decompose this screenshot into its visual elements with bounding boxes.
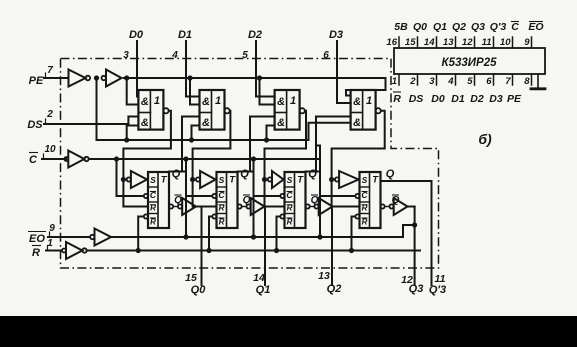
IC pin 2 bottom bbox=[417, 74, 419, 85]
svg-text:5: 5 bbox=[467, 76, 473, 87]
IC body K533IR25 bbox=[394, 48, 545, 74]
svg-text:15: 15 bbox=[185, 272, 197, 284]
wire PE branch stage1 bbox=[124, 75, 129, 80]
svg-text:D3: D3 bbox=[329, 29, 343, 41]
IC pin 4 bottom bbox=[455, 74, 457, 85]
svg-text:5: 5 bbox=[242, 50, 248, 61]
svg-text:&: & bbox=[277, 96, 285, 108]
svg-text:D3: D3 bbox=[489, 93, 503, 105]
wire DS bbox=[44, 123, 128, 125]
scan black band bbox=[0, 316, 577, 347]
wire PE bbox=[44, 77, 69, 79]
wire PE-not branch stage4 bbox=[309, 123, 351, 140]
svg-text:Q: Q bbox=[308, 168, 317, 180]
IC pin 3 bottom bbox=[436, 74, 438, 85]
wire Q1 feedback to stage3 bbox=[249, 117, 251, 172]
wire EO in bbox=[48, 236, 90, 238]
svg-text:1: 1 bbox=[392, 76, 397, 87]
overbar R bottom bbox=[393, 91, 401, 93]
svg-text:7: 7 bbox=[505, 76, 511, 87]
wire gate DD2 output bbox=[193, 111, 231, 207]
buffer S input T1 bbox=[121, 177, 126, 182]
svg-text:Q0: Q0 bbox=[413, 21, 427, 33]
inverter PE first bbox=[69, 70, 86, 87]
buffer EO bbox=[90, 235, 94, 239]
svg-text:D0: D0 bbox=[129, 29, 144, 41]
svg-text:1: 1 bbox=[154, 95, 160, 107]
svg-text:Q: Q bbox=[240, 168, 249, 180]
svg-text:D2: D2 bbox=[470, 93, 484, 105]
IC pin 14 top bbox=[436, 37, 438, 48]
flip-flop T4 (S C R R / T) bbox=[360, 172, 381, 228]
svg-text:15: 15 bbox=[405, 37, 416, 48]
svg-text:D0: D0 bbox=[431, 93, 445, 105]
svg-text:Q2: Q2 bbox=[452, 21, 466, 33]
svg-text:R: R bbox=[219, 218, 225, 227]
svg-text:3: 3 bbox=[429, 76, 435, 87]
wire Q2 to pin bbox=[331, 206, 334, 208]
wire Q1 to pin bbox=[264, 206, 267, 208]
svg-text:Q1: Q1 bbox=[256, 284, 271, 296]
svg-text:б): б) bbox=[478, 131, 492, 147]
IC pin 9 top bbox=[531, 37, 533, 48]
border dash-dot frame bbox=[61, 59, 439, 269]
svg-text:Q′3: Q′3 bbox=[490, 21, 507, 33]
wire Q2 down bbox=[319, 146, 321, 238]
svg-text:9: 9 bbox=[49, 223, 55, 234]
svg-text:10: 10 bbox=[500, 37, 511, 48]
svg-text:&: & bbox=[277, 117, 285, 129]
wire Q2 feedback jog bbox=[316, 146, 320, 172]
svg-text:10: 10 bbox=[44, 144, 56, 155]
svg-text:PE: PE bbox=[507, 93, 522, 105]
svg-text:13: 13 bbox=[443, 37, 454, 48]
AND-OR gate DD4 (&amp;-&amp;-1) bbox=[351, 90, 376, 130]
svg-text:2: 2 bbox=[409, 76, 416, 87]
wire gate DD3 output bbox=[265, 111, 307, 207]
svg-text:1: 1 bbox=[215, 95, 221, 107]
inverter PE second bbox=[102, 76, 106, 80]
svg-text:S: S bbox=[362, 175, 368, 185]
svg-text:C: C bbox=[511, 21, 519, 33]
wire C in bbox=[42, 158, 66, 160]
buffer S input T2 bbox=[190, 177, 195, 182]
svg-text:D1: D1 bbox=[451, 93, 465, 105]
svg-text:R: R bbox=[150, 218, 156, 227]
wire PE rail bbox=[124, 77, 386, 79]
flip-flop T3 (S C R R / T) bbox=[285, 172, 306, 228]
IC pin 7 bottom bbox=[512, 74, 514, 85]
svg-text:6: 6 bbox=[486, 76, 492, 87]
svg-text:T: T bbox=[229, 175, 236, 186]
wire Q0 to pin bbox=[196, 206, 202, 208]
svg-text:14: 14 bbox=[424, 37, 435, 48]
svg-text:Q3: Q3 bbox=[471, 21, 485, 33]
svg-text:5В: 5В bbox=[394, 21, 408, 33]
svg-text:Q3: Q3 bbox=[409, 283, 424, 295]
svg-text:Q′3: Q′3 bbox=[429, 284, 446, 296]
svg-text:1: 1 bbox=[290, 95, 296, 107]
svg-text:S: S bbox=[150, 175, 156, 185]
wire PE-not branch stage1 bbox=[124, 137, 129, 142]
wire gate DD1 output bbox=[123, 111, 170, 207]
svg-text:9: 9 bbox=[524, 37, 530, 48]
svg-text:3: 3 bbox=[123, 50, 129, 61]
wire gate DD4 output bbox=[332, 111, 385, 207]
svg-text:DS: DS bbox=[409, 93, 424, 105]
wire D3 vertical bbox=[336, 41, 338, 103]
wire C rail bbox=[89, 158, 320, 160]
wire C to T4 bbox=[319, 159, 321, 237]
svg-text:T: T bbox=[161, 175, 168, 186]
svg-text:R: R bbox=[362, 218, 368, 227]
svg-text:R: R bbox=[287, 218, 293, 227]
svg-text:&: & bbox=[353, 96, 361, 108]
svg-text:1: 1 bbox=[47, 238, 53, 249]
AND-OR gate DD2 (&amp;-&amp;-1) bbox=[200, 90, 225, 130]
wire D1 vertical bbox=[185, 41, 187, 97]
flip-flop T2 (S C R R / T) bbox=[217, 172, 238, 228]
svg-text:Q: Q bbox=[172, 168, 181, 180]
wire R to T2 bbox=[206, 248, 211, 253]
IC pin 11 top bbox=[493, 37, 495, 48]
wire C to T3 bbox=[251, 156, 256, 161]
IC pin 8 bottom bbox=[531, 74, 533, 85]
IC pin 5 bottom bbox=[474, 74, 476, 85]
node EO join Q3 buffer bbox=[412, 222, 417, 227]
svg-text:R: R bbox=[393, 93, 401, 105]
svg-text:D1: D1 bbox=[178, 29, 192, 41]
svg-text:6: 6 bbox=[323, 50, 329, 61]
svg-text:14: 14 bbox=[253, 272, 265, 284]
svg-text:Q2: Q2 bbox=[327, 283, 342, 295]
svg-text:&: & bbox=[202, 96, 210, 108]
wire PE end loop stage4 bbox=[346, 78, 386, 96]
buffer S input T3 bbox=[262, 177, 267, 182]
wire PE branch stage2 bbox=[187, 75, 192, 80]
svg-text:К533ИР25: К533ИР25 bbox=[442, 57, 498, 69]
wire PE branch stage3 bbox=[257, 75, 262, 80]
wire Q0 feedback to stage2 bbox=[181, 117, 183, 172]
wire PE-not branch stage3 bbox=[264, 137, 269, 142]
svg-text:&: & bbox=[141, 96, 149, 108]
wire PE-not branch stage2 bbox=[189, 137, 194, 142]
svg-text:4: 4 bbox=[171, 50, 178, 61]
svg-text:16: 16 bbox=[386, 37, 397, 48]
wire R rail bbox=[87, 250, 420, 252]
svg-text:&: & bbox=[202, 117, 210, 129]
svg-text:DS: DS bbox=[27, 119, 43, 131]
svg-text:2: 2 bbox=[46, 109, 53, 120]
svg-text:11: 11 bbox=[482, 37, 492, 48]
wire R to T3 bbox=[274, 248, 279, 253]
svg-text:13: 13 bbox=[318, 270, 330, 282]
svg-text:&: & bbox=[141, 117, 149, 129]
overbar EO top bbox=[529, 21, 543, 23]
svg-text:D2: D2 bbox=[248, 29, 262, 41]
buffer S input T4 bbox=[329, 177, 334, 182]
svg-text:7: 7 bbox=[47, 65, 53, 76]
svg-text:C: C bbox=[29, 154, 38, 166]
flip-flop T1 (S C R R / T) bbox=[148, 172, 169, 228]
wire Q3 to pin bbox=[408, 206, 415, 208]
svg-text:Q: Q bbox=[386, 168, 395, 180]
IC pin 13 top bbox=[455, 37, 457, 48]
svg-text:8: 8 bbox=[524, 76, 530, 87]
svg-text:4: 4 bbox=[447, 76, 454, 87]
IC pin 12 top bbox=[474, 37, 476, 48]
svg-text:R: R bbox=[32, 247, 40, 259]
wire PE-not line bbox=[97, 139, 309, 141]
wire C to T1 bbox=[114, 156, 119, 161]
svg-text:S: S bbox=[287, 175, 293, 185]
overbar C top bbox=[511, 21, 519, 23]
wire PE-not vertical bbox=[96, 78, 98, 140]
wire R to T1 bbox=[136, 248, 141, 253]
svg-text:S: S bbox=[219, 175, 225, 185]
AND-OR gate DD1 (&amp;-&amp;-1) bbox=[138, 90, 163, 130]
svg-text:Q1: Q1 bbox=[433, 21, 447, 33]
svg-text:&: & bbox=[353, 117, 361, 129]
IC pin 10 top bbox=[512, 37, 514, 48]
svg-text:12: 12 bbox=[462, 37, 473, 48]
wire D0 vertical bbox=[136, 41, 138, 97]
wire EO rail bbox=[111, 236, 403, 238]
svg-text:T: T bbox=[372, 175, 379, 186]
svg-text:T: T bbox=[297, 175, 304, 186]
svg-text:EO: EO bbox=[29, 233, 45, 245]
IC pin 6 bottom bbox=[493, 74, 495, 85]
wire D2 vertical bbox=[255, 41, 257, 97]
svg-text:PE: PE bbox=[29, 75, 44, 87]
node PE mid bbox=[94, 75, 99, 80]
wire R to T4 bbox=[349, 248, 354, 253]
svg-text:1: 1 bbox=[366, 95, 372, 107]
wire Q2 feedback to stage4 bbox=[315, 117, 317, 172]
ground pin 8 bbox=[537, 74, 539, 88]
IC pin 15 top bbox=[417, 37, 419, 48]
inverter R bbox=[62, 249, 66, 253]
wire R in bbox=[46, 250, 62, 252]
wire C to T2 bbox=[183, 156, 188, 161]
AND-OR gate DD3 (&amp;-&amp;-1) bbox=[275, 90, 300, 130]
svg-text:ЕО: ЕО bbox=[528, 21, 543, 33]
IC pin 1 bottom bbox=[398, 74, 400, 85]
IC pin 16 top bbox=[398, 37, 400, 48]
svg-text:Q0: Q0 bbox=[191, 284, 207, 296]
inverter C bbox=[64, 157, 68, 161]
